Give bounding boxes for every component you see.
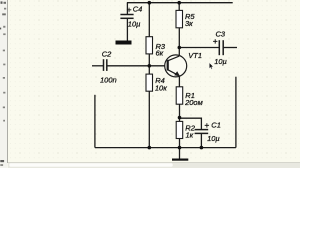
node base — [148, 64, 152, 68]
svg-text:10µ: 10µ — [207, 134, 220, 143]
wire base node to R4 — [148, 66, 150, 74]
svg-text:+: + — [204, 120, 209, 130]
node bottom C1 — [200, 146, 204, 150]
ground symbol bottom — [172, 159, 188, 161]
wire top rail — [127, 2, 233, 4]
svg-text:C4: C4 — [133, 4, 143, 13]
wire R5 top lead — [178, 3, 180, 11]
node bottom ground — [178, 146, 182, 150]
wire input vertical — [94, 95, 96, 148]
wire R3 bottom lead — [148, 54, 150, 66]
node junction top R5 — [177, 1, 181, 5]
resistor R5 body — [176, 10, 183, 27]
wire emitter to R1 — [178, 76, 180, 87]
capacitor C3 plates — [218, 40, 220, 55]
svg-text:100n: 100n — [100, 75, 117, 84]
svg-text:VT1: VT1 — [188, 51, 202, 60]
svg-text:10µ: 10µ — [214, 57, 227, 66]
svg-text:10µ: 10µ — [128, 19, 141, 28]
node emitter R1-R2 — [178, 116, 182, 120]
svg-text:C2: C2 — [102, 49, 112, 58]
wire R3 top lead — [148, 3, 150, 37]
wire C3 right lead — [223, 47, 237, 49]
svg-text:1к: 1к — [186, 130, 194, 139]
scrollbar horizontal — [8, 162, 300, 168]
capacitor C2 plates — [103, 59, 105, 71]
svg-text:+: + — [127, 5, 132, 15]
wire output vertical — [235, 77, 237, 148]
wire C4 to ground — [126, 18, 128, 40]
wire bottom rail — [95, 147, 236, 149]
svg-text:C1: C1 — [211, 121, 221, 130]
wire base — [107, 65, 168, 67]
resistor R1 body — [176, 87, 183, 104]
capacitor C4 plates — [120, 14, 133, 16]
node collector — [178, 46, 182, 50]
wire R5 bottom to collector — [178, 28, 180, 56]
wire C1 bottom lead — [200, 133, 202, 147]
resistor R4 body — [146, 74, 153, 91]
svg-text:10к: 10к — [155, 84, 167, 93]
canvas background — [8, 0, 300, 163]
capacitor C1 plates — [195, 129, 209, 131]
wire C1 branch — [180, 118, 202, 129]
resistor R3 body — [146, 37, 153, 54]
node bottom R4 — [148, 146, 152, 150]
svg-text:3к: 3к — [185, 19, 193, 28]
left panel — [0, 0, 8, 168]
svg-text:6к: 6к — [156, 49, 164, 58]
wire collector node to C3 — [179, 47, 219, 49]
resistor R2 body — [176, 121, 183, 138]
svg-text:20ом: 20ом — [184, 98, 203, 107]
wire C2 left lead — [92, 65, 104, 67]
svg-text:+: + — [213, 36, 218, 46]
transistor VT1 — [165, 55, 187, 77]
node junction top R3 — [148, 1, 152, 5]
wire R4 bottom lead — [148, 91, 150, 147]
wire C4 top lead — [126, 3, 128, 15]
wire ground stem bottom — [179, 148, 181, 159]
ground symbol top (under C4) — [116, 41, 132, 45]
mouse cursor — [209, 63, 213, 69]
wire R2 bottom lead — [179, 139, 181, 148]
wire R1 bottom lead — [179, 104, 181, 121]
